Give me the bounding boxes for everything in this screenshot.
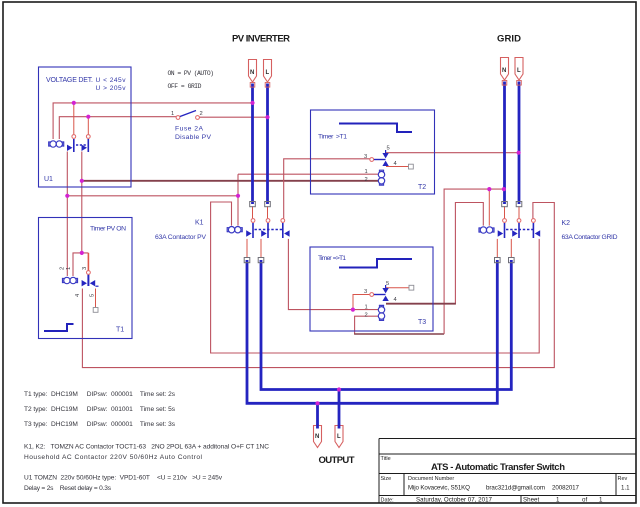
svg-text:2: 2 [365,177,368,183]
terminal PV L [264,60,272,88]
terminal OUTPUT N [314,425,322,448]
wire: T3 pin2 to neutral return [354,189,504,334]
svg-text:T1: T1 [116,327,124,334]
svg-text:3: 3 [364,154,367,160]
notes block bottom left [24,391,269,492]
connector squares K2 top [502,202,508,207]
contact U1 (DPST) [67,135,90,152]
svg-text:K2: K2 [562,220,571,227]
svg-text:brac321d@gmail.com: brac321d@gmail.com [486,485,545,492]
wire: U1 contact left down to T1 [66,152,68,277]
svg-text:Fuse 2A: Fuse 2A [175,126,203,133]
wire: net to K1 coil A2 and T2 pin1 [67,174,378,225]
coil T2 [378,170,384,185]
svg-text:20082017: 20082017 [552,485,580,492]
svg-text:Size: Size [381,476,392,482]
coil K1 [227,227,242,233]
svg-text:T2: T2 [418,184,426,191]
svg-text:L: L [517,68,521,74]
svg-text:ON = PV (AUTO): ON = PV (AUTO) [168,70,215,77]
svg-text:N: N [250,70,254,76]
svg-text:N: N [502,68,506,74]
wire: U1 pin via fuse switch to PV L [59,117,267,139]
wire: K1 aux top to T2 pin3 [284,159,370,219]
svg-text:Timer >T1: Timer >T1 [318,134,347,141]
terminal OUTPUT L [335,425,343,448]
svg-text:1: 1 [556,497,560,504]
svg-text:Disable PV: Disable PV [175,134,211,141]
box U1 [39,67,132,187]
svg-text:Timer PV ON: Timer PV ON [90,226,126,233]
svg-text:Rev: Rev [618,476,628,482]
svg-text:5: 5 [90,294,96,297]
svg-text:T3 type: DHC19M DIPsw: 0: T3 type: DHC19M DIPsw: 000001 Time set: … [24,421,176,428]
wire: K2 aux top link [533,202,554,204]
box T3 [310,247,433,331]
svg-text:1: 1 [66,267,72,270]
stub square T2 pin4 [409,164,414,169]
contactor K2 poles [498,219,541,238]
wire: PV inverter L feed (thick) [266,84,269,205]
svg-text:of: of [582,497,587,504]
svg-text:1: 1 [365,169,368,175]
wire: K2 coil A2 drop [488,189,490,226]
svg-text:Date:: Date: [381,498,395,504]
svg-text:K1: K1 [195,220,204,227]
wire: T1 pin4 to horizontal B [82,203,554,368]
coil T1 [63,277,78,283]
wire: K2 coil A1 to T3 pin4 [386,203,483,304]
wire: N drop to output terminal (thick) [316,403,319,425]
wire: K2 pole pin stubs [497,206,519,258]
svg-text:2: 2 [365,313,368,319]
contact T2 (SPDT horizontal) [370,150,389,166]
wire: T1 coil pin1 / contact pin3 link [73,253,88,276]
svg-text:U < 245v: U < 245v [96,77,127,84]
svg-text:1: 1 [365,305,368,311]
wire: GRID N feed (thick) [503,82,506,205]
contactor K1 poles [246,219,289,238]
svg-text:OFF = GRID: OFF = GRID [168,83,202,90]
svg-text:U1: U1 [44,176,53,183]
wire: U1 contact right down to T1 junction [81,152,83,253]
svg-text:3: 3 [82,267,88,270]
wire: T3 pin5 stub [386,287,409,289]
svg-text:OUTPUT: OUTPUT [319,455,355,466]
connector squares K2 bottom [495,258,501,263]
wire: T3 pin3 latch link [353,295,369,310]
svg-text:U1 TOMZN 220v 50/60Hz type:: U1 TOMZN 220v 50/60Hz type: VPD1-60T <U … [24,475,223,482]
terminal GRID N [501,58,509,86]
coil U1 [49,141,64,147]
svg-text:T3: T3 [418,319,426,326]
svg-text:GRID: GRID [497,34,521,45]
coil K2 [479,227,494,233]
wire: K1 pole pin stubs [247,206,268,258]
wire: PV inverter N feed (thick) [251,84,254,205]
fuse / disable-PV switch [176,111,199,120]
svg-text:Household AC Contactor 220V 50: Household AC Contactor 220V 50/60Hz Auto… [24,454,203,461]
svg-text:VOLTAGE DET.: VOLTAGE DET. [46,77,93,84]
stub square T3 pin5 [409,285,414,290]
wire: output N bus (thick) [247,260,497,403]
waveform in T1 [44,324,74,331]
svg-text:L: L [266,70,270,76]
wire: T1 pin3 drop (bright) [87,253,89,271]
svg-text:5: 5 [386,281,389,287]
terminal GRID L [515,58,523,86]
wire: K1 aux bottom to T3 pin1 [288,239,378,310]
svg-text:2: 2 [200,111,203,117]
wire: U1 circle pin drops [74,103,89,134]
svg-text:1: 1 [171,111,174,117]
box T1 [39,218,133,339]
svg-text:U > 205v: U > 205v [96,85,127,92]
stub square T1 pin5 [93,308,98,313]
svg-text:Timer =>T1: Timer =>T1 [318,255,346,262]
svg-text:L: L [337,434,341,440]
svg-text:1.1: 1.1 [621,485,630,492]
svg-text:N: N [315,434,319,440]
svg-text:K1, K2: TOMZN AC Contactor T: K1, K2: TOMZN AC Contactor TOCT1-63 2NO … [24,444,269,451]
wire: L drop to output terminal (thick) [338,390,341,426]
contact T3 (SPDT horizontal) [370,285,389,301]
svg-text:Document Number: Document Number [408,476,454,482]
wire: output L bus (thick) [261,260,511,390]
svg-text:Delay = 2s Reset delay = 0.: Delay = 2s Reset delay = 0.3s [24,485,112,492]
box T2 [311,110,435,194]
svg-text:Sheet: Sheet [523,497,539,504]
wire: U1 right output to T2 pin2 [82,180,379,182]
waveform in T2 (on-delay) [339,124,412,133]
svg-text:Mijo Kovacevic, S51KQ: Mijo Kovacevic, S51KQ [408,485,470,492]
wire: T1 pin5 stub [95,289,97,308]
terminal PV N [249,60,257,88]
svg-text:ATS - Automatic Transfer Switc: ATS - Automatic Transfer Switch [431,462,565,473]
svg-text:3: 3 [364,289,367,295]
svg-text:PV INVERTER: PV INVERTER [232,34,290,45]
svg-text:1: 1 [599,497,603,504]
svg-text:5: 5 [387,146,390,152]
connector squares K1 top [250,202,256,207]
wire: K1 coil A1 loop to horizontal A and K2 aux bottom [211,202,540,353]
title block frame [379,439,636,504]
wire: U1 coil top to PV N (net) [53,103,252,139]
svg-text:63A Contactor GRID: 63A Contactor GRID [562,234,618,241]
wire: GRID L feed (thick) [518,82,521,205]
waveform in T3 (off-delay) [339,259,412,268]
svg-text:Saturday, October 07, 2017: Saturday, October 07, 2017 [416,497,493,504]
svg-text:63A Contactor PV: 63A Contactor PV [155,234,206,241]
connector squares K1 bottom [244,258,250,263]
wire: T2 pin5 to GRID L [386,152,519,154]
svg-text:Title: Title [381,456,391,462]
contact T1 (SPDT) [82,271,99,287]
svg-text:T2 type: DHC19M DIPsw: 0: T2 type: DHC19M DIPsw: 001001 Time set: … [24,406,176,413]
coil T3 [378,305,384,320]
wire: T2 pin4 stub [386,166,409,168]
svg-text:2: 2 [60,267,66,270]
svg-text:T1 type: DHC19M DIPsw: 0: T1 type: DHC19M DIPsw: 000001 Time set: … [24,391,176,398]
